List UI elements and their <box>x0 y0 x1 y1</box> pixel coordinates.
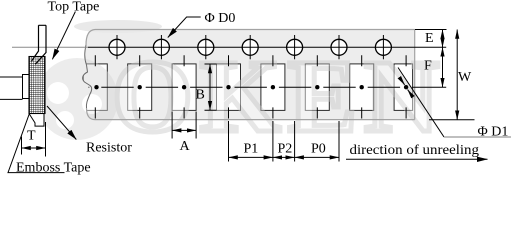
tape break squiggle <box>83 45 92 108</box>
section: hatched tape block <box>29 57 45 114</box>
dim P0 <box>295 156 339 158</box>
emboss pocket 6 <box>305 64 329 111</box>
leader D0 <box>168 17 201 38</box>
leader Top Tape <box>52 12 75 60</box>
emboss pocket 4 <box>217 64 241 111</box>
dim B ticks <box>205 64 217 110</box>
tape edge bottom (gray) <box>87 108 415 120</box>
pocket vertical center ticks <box>95 55 406 118</box>
emboss pocket 7 <box>350 64 374 111</box>
dim W extension bottom <box>429 119 475 121</box>
svg-text:P0: P0 <box>311 142 326 157</box>
sprocket hole D0 circles with crosshairs <box>109 39 391 55</box>
arrow direction of unreeling <box>346 158 488 160</box>
page background <box>0 0 511 177</box>
dim P1 <box>229 156 273 158</box>
dim B <box>209 64 211 110</box>
section: tail flap below <box>29 114 44 127</box>
svg-text:Resistor: Resistor <box>86 140 132 155</box>
dim E <box>442 30 444 48</box>
emboss pocket 1 (clipped by tape break) <box>83 64 107 111</box>
svg-text:P2: P2 <box>278 142 293 157</box>
dim P2 <box>273 156 295 158</box>
emboss pocket 8 (at cut tape end) <box>394 64 413 111</box>
svg-text:T: T <box>27 129 36 144</box>
section: top tape strip <box>31 25 46 64</box>
sprocket centerline <box>12 46 88 48</box>
svg-text:Top Tape: Top Tape <box>48 0 100 14</box>
svg-text:W: W <box>458 70 472 85</box>
pocket horizontal centerline with gaps at dots <box>89 86 447 88</box>
resistor center dots <box>94 85 408 89</box>
D1 pointer arrows <box>400 78 405 85</box>
tape edge right (gray) <box>414 30 416 120</box>
dim T extensions <box>22 122 46 157</box>
emboss pocket 5 <box>261 64 285 111</box>
svg-text:A: A <box>180 139 191 154</box>
dim A extensions <box>172 112 196 139</box>
section: emboss bump lines <box>0 77 23 99</box>
dim P extensions <box>229 121 340 162</box>
svg-text:direction of unreeling: direction of unreeling <box>350 143 480 158</box>
svg-text:E: E <box>425 31 434 46</box>
svg-text:Φ D0: Φ D0 <box>205 11 236 26</box>
tape edge top (gray) <box>86 30 415 46</box>
emboss pocket 2 <box>128 64 152 111</box>
dim A <box>172 129 196 131</box>
svg-text:B: B <box>196 87 205 102</box>
carrier tape band fill <box>78 30 420 120</box>
dim F <box>442 47 444 87</box>
dim E extension top <box>415 29 447 31</box>
watermark logo <box>74 20 162 33</box>
svg-text:OKEN: OKEN <box>112 39 446 154</box>
dim W <box>456 30 458 120</box>
leader Emboss Tape <box>8 114 65 173</box>
dim T <box>22 147 46 149</box>
leader Resistor <box>47 106 76 140</box>
svg-text:F: F <box>424 59 432 74</box>
leader D1 <box>398 68 444 138</box>
section: emboss bump rect <box>23 75 32 99</box>
sprocket hole fills (holes 1-7) <box>109 39 391 55</box>
svg-text:P1: P1 <box>244 142 259 157</box>
emboss pocket 3 <box>172 64 196 111</box>
